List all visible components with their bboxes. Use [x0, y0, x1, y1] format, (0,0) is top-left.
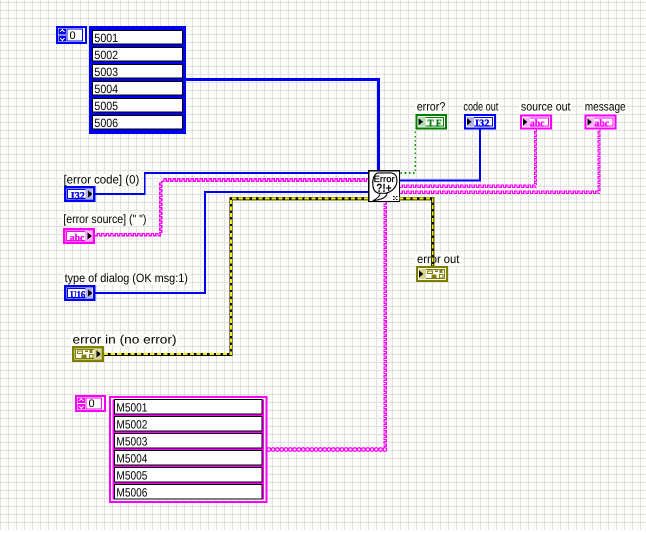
svg-text:[error source] (" "): [error source] (" ") [63, 212, 146, 226]
array element M5003 [115, 434, 263, 449]
svg-text:M5003: M5003 [116, 434, 147, 448]
label [error code] (0) [62, 174, 141, 187]
terminal error in cluster control [73, 347, 103, 361]
array element 5002 [93, 48, 183, 62]
svg-text:error in (no error): error in (no error) [73, 333, 177, 347]
svg-text:message: message [585, 99, 626, 113]
svg-text:abc: abc [595, 119, 610, 130]
label error out [416, 253, 462, 266]
label error? [415, 101, 447, 114]
array element 5003 [93, 65, 183, 79]
terminal code out I32 indicator [465, 115, 495, 129]
svg-text:source out: source out [521, 99, 571, 113]
label error in (no error) [71, 334, 178, 347]
wire: type of dialog U16 to error handler [95, 192, 369, 293]
svg-text:M5002: M5002 [116, 417, 147, 431]
svg-text:5004: 5004 [94, 82, 118, 96]
svg-text:abc: abc [70, 233, 85, 244]
label [error source] (" ") [62, 213, 148, 226]
svg-text:abc: abc [530, 119, 545, 130]
svg-text:?!+: ?!+ [376, 181, 391, 195]
svg-text:I32: I32 [475, 118, 490, 129]
terminal error? TF indicator [417, 115, 447, 129]
array element M5004 [115, 451, 263, 466]
wire: error in cluster to error handler (dashed olive) [104, 199, 369, 355]
svg-text:error out: error out [417, 252, 460, 266]
wire: error handler to error? TF (boolean dotted) [401, 130, 416, 174]
numeric array frame [89, 26, 186, 134]
svg-text:M5005: M5005 [116, 468, 147, 482]
svg-text:[error code] (0): [error code] (0) [64, 173, 140, 187]
array element M5002 [115, 417, 263, 432]
svg-text:error?: error? [417, 99, 446, 113]
terminal error out cluster indicator [417, 267, 447, 281]
svg-text:code out: code out [463, 99, 498, 113]
array index box (string array) [76, 396, 105, 411]
svg-text:M5004: M5004 [116, 451, 147, 465]
wire: [error source] abc to error handler (string zigzag) [95, 233, 161, 235]
array element M5005 [115, 468, 263, 483]
wire: error handler to source out (string zigzag) [400, 185, 537, 187]
array element 5005 [93, 99, 183, 113]
svg-text:M5001: M5001 [116, 400, 147, 414]
svg-text:5006: 5006 [94, 116, 118, 130]
terminal [error source] abc control [64, 229, 94, 243]
svg-text:I32: I32 [71, 191, 85, 202]
wire: error handler to message (string zigzag) [400, 191, 600, 193]
wire: error handler to error out (dashed olive) [400, 199, 433, 266]
string array frame [110, 397, 267, 502]
svg-text:5005: 5005 [94, 99, 118, 113]
svg-text:5001: 5001 [94, 31, 118, 45]
svg-text:M5006: M5006 [116, 485, 147, 499]
array element 5004 [93, 82, 183, 96]
array index box (numeric array) [57, 27, 86, 43]
label code out [462, 101, 500, 114]
svg-text:U16: U16 [70, 290, 85, 301]
terminal [error code] I32 control [65, 187, 94, 201]
label type of dialog (OK msg:1) [63, 272, 190, 285]
wire: [error code] I32 to error handler [95, 173, 369, 194]
svg-text:5003: 5003 [94, 65, 118, 79]
op: General Error Handler node U1 [369, 171, 400, 202]
label message [583, 101, 627, 114]
svg-text:5002: 5002 [94, 48, 118, 62]
svg-text:T F: T F [428, 118, 442, 129]
label source out [519, 101, 572, 114]
svg-text:0: 0 [89, 398, 95, 410]
array element M5001 [115, 400, 263, 415]
terminal message abc indicator [586, 116, 616, 129]
svg-text:0: 0 [70, 30, 76, 42]
svg-text:type of dialog (OK msg:1): type of dialog (OK msg:1) [65, 271, 188, 285]
array element 5006 [93, 116, 183, 130]
wire: error handler to code out I32 [400, 129, 481, 181]
terminal type of dialog U16 control [65, 286, 94, 300]
wire: numeric array to error handler (1D I32 array) [186, 80, 379, 171]
wire: string array M500x to error handler (circle chain) [267, 448, 387, 452]
array element M5006 [115, 485, 263, 500]
terminal source out abc indicator [521, 116, 551, 129]
array element 5001 [93, 31, 183, 45]
